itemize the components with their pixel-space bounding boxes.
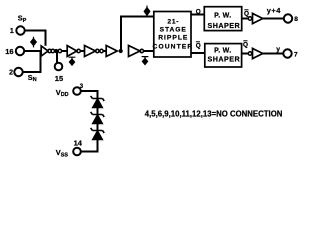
svg-text:SHAPER: SHAPER xyxy=(207,21,240,30)
svg-text:1: 1 xyxy=(10,28,14,35)
svg-text:STAGE: STAGE xyxy=(160,26,187,33)
svg-text:14: 14 xyxy=(74,138,83,147)
svg-text:RIPPLE: RIPPLE xyxy=(158,34,188,41)
svg-text:y+4: y+4 xyxy=(267,6,281,15)
svg-text:15: 15 xyxy=(55,74,63,83)
svg-text:8: 8 xyxy=(294,16,298,23)
svg-text:Q: Q xyxy=(196,42,201,49)
svg-text:16: 16 xyxy=(5,47,13,56)
svg-text:Q: Q xyxy=(244,11,249,18)
svg-text:2: 2 xyxy=(9,70,13,77)
svg-text:7: 7 xyxy=(294,51,298,58)
svg-text:COUNTER: COUNTER xyxy=(153,43,194,50)
svg-text:SHAPER: SHAPER xyxy=(207,55,240,64)
svg-text:Q: Q xyxy=(243,42,248,49)
svg-text:4,5,6,9,10,11,12,13=NO CONNECT: 4,5,6,9,10,11,12,13=NO CONNECTION xyxy=(145,110,283,119)
svg-text:y: y xyxy=(276,46,280,53)
svg-text:Q: Q xyxy=(196,8,201,15)
svg-text:P. W.: P. W. xyxy=(214,12,231,19)
svg-text:21-: 21- xyxy=(167,19,179,26)
